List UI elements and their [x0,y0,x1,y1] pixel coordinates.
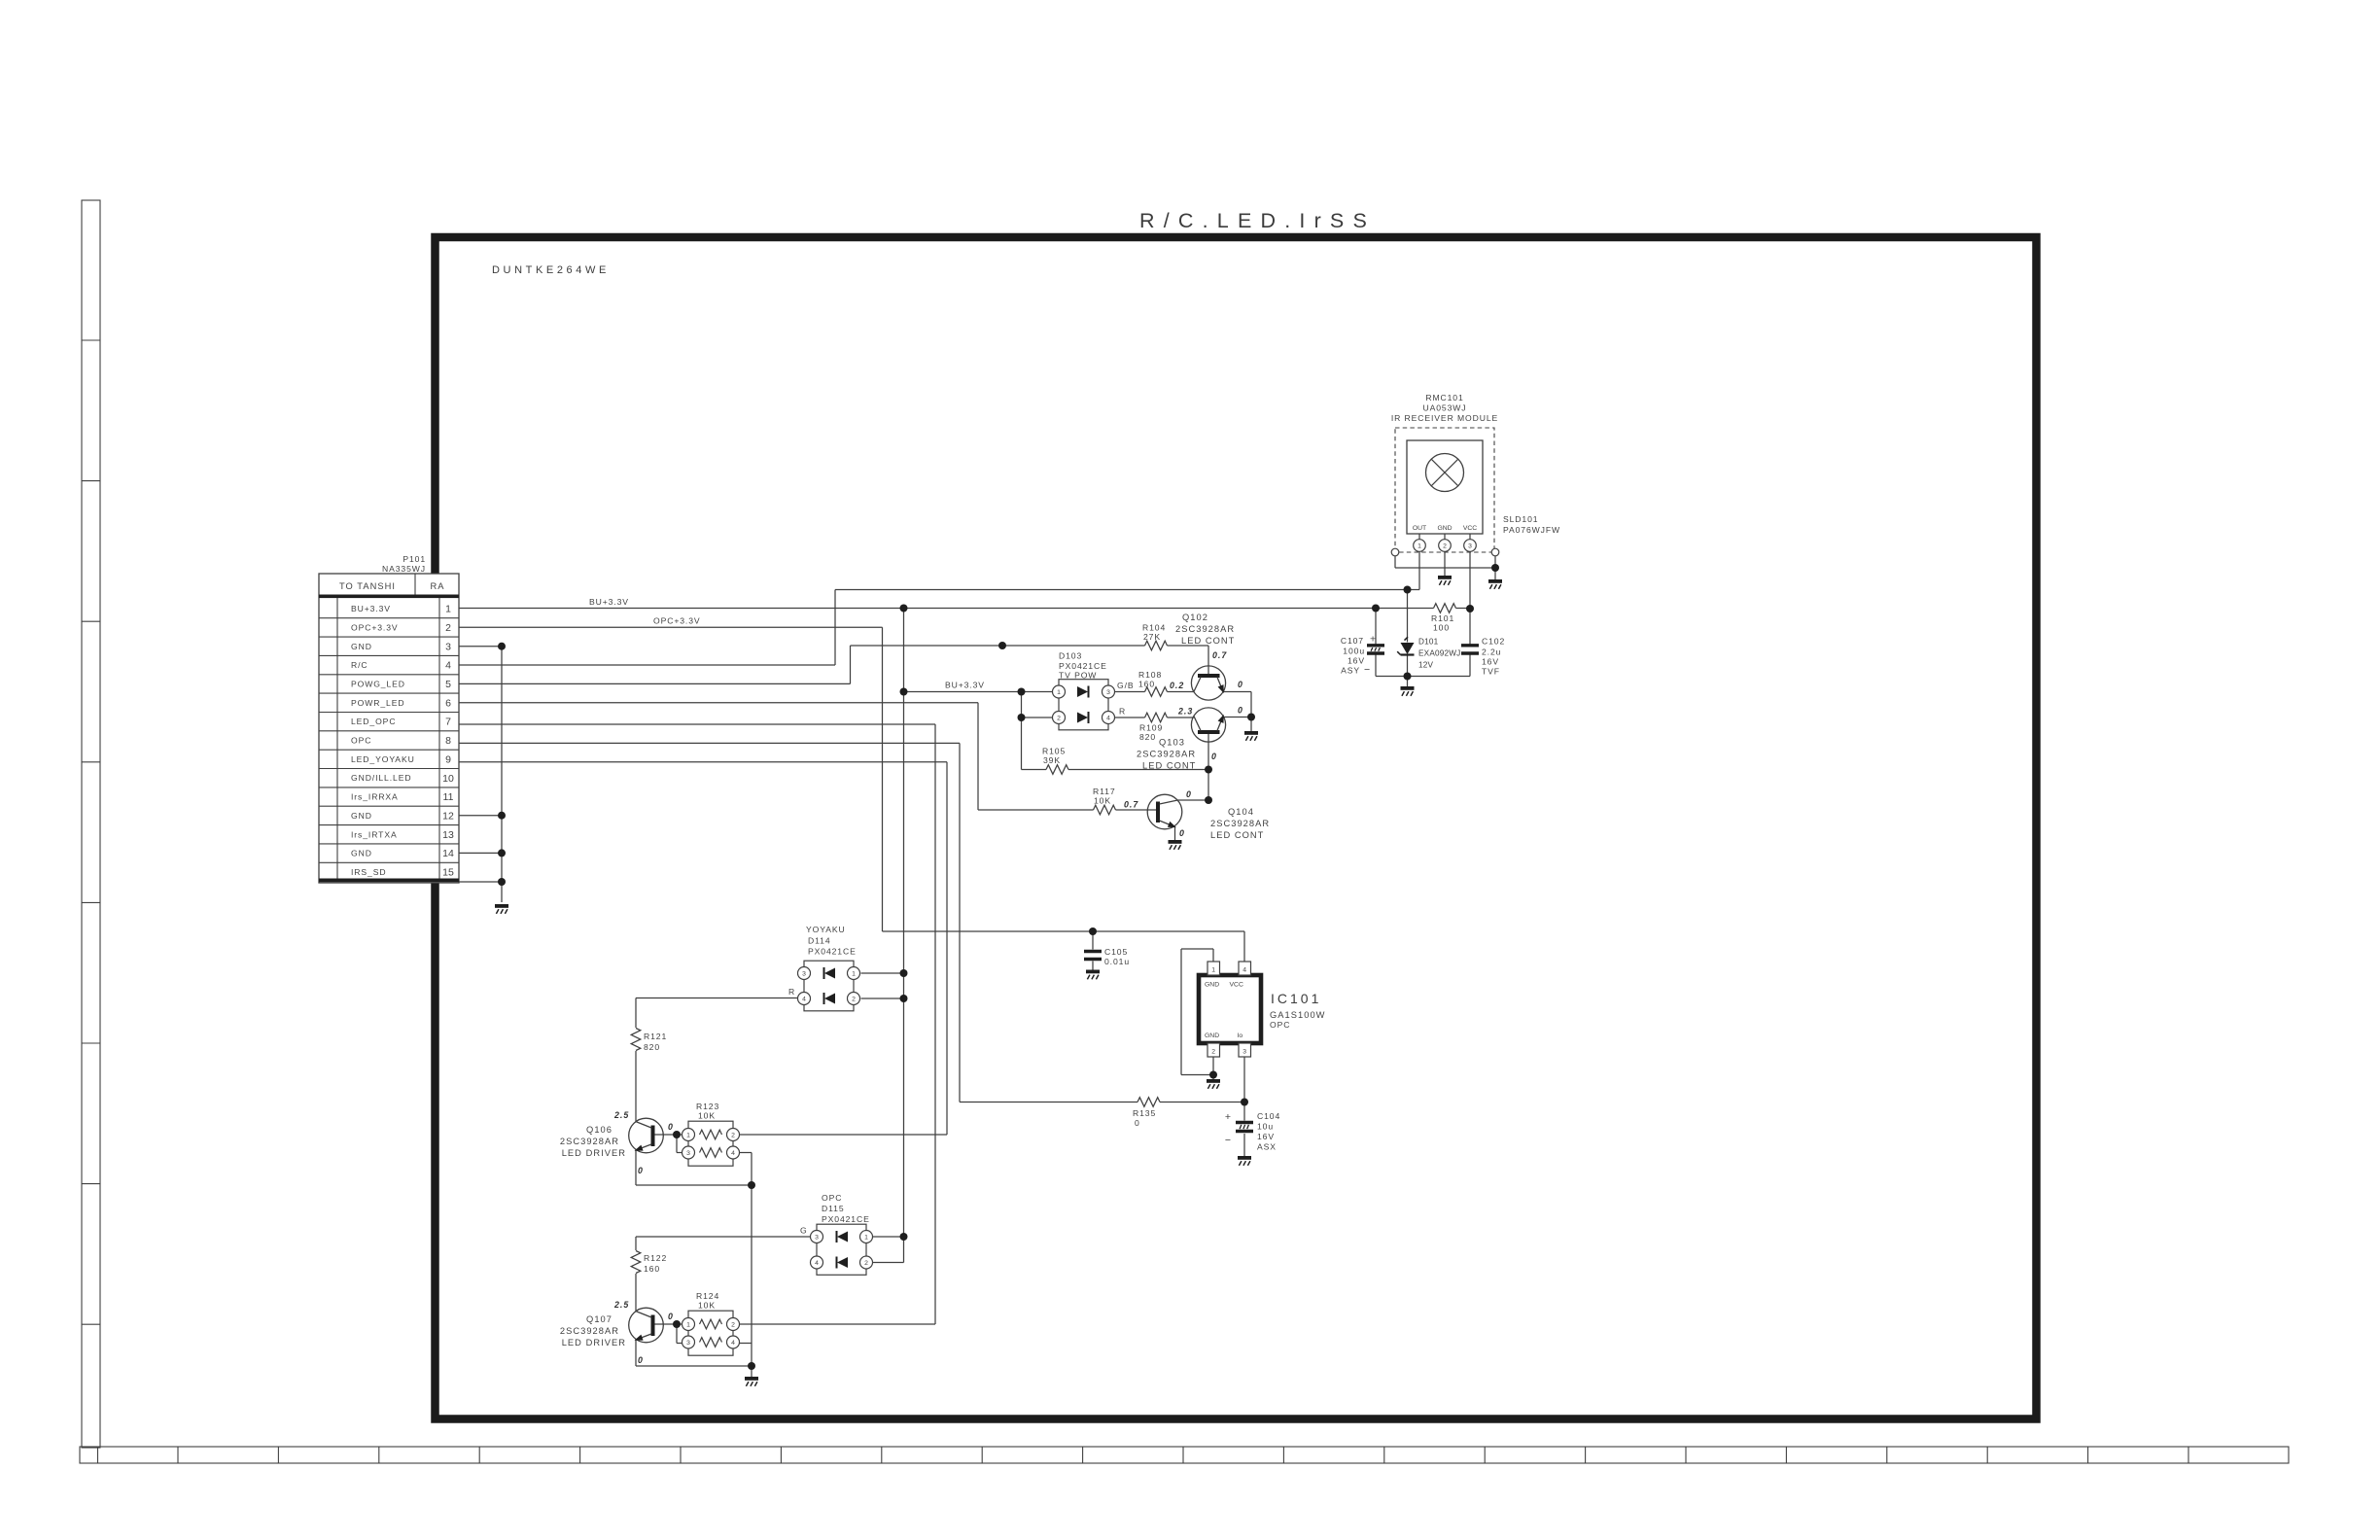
wire RMC101 pin2 stub [1444,534,1446,540]
svg-text:G: G [800,1226,808,1236]
wire R121 to Q106 collector [635,1051,637,1122]
wire POWG_LED from pin5 [459,682,851,684]
svg-text:LED DRIVER: LED DRIVER [562,1338,626,1347]
RMC101 pin 3 [1464,540,1477,552]
node junction [900,688,908,696]
resistor R105 [1046,765,1068,775]
svg-text:R122: R122 [644,1253,667,1263]
ground D101 rail [1401,686,1415,696]
wire RMC101 pin3 stub [1469,534,1471,540]
svg-text:0: 0 [1186,789,1192,799]
svg-text:4: 4 [731,1340,735,1347]
resistor pack R123 10K [682,1121,740,1166]
svg-text:TO TANSHI: TO TANSHI [339,581,396,591]
resistor R135 [1137,1098,1160,1107]
svg-text:3: 3 [802,970,806,977]
LED bridge D103 PX0421CE TV POW [1053,680,1115,730]
photo IC IC101 GA1S100W OPC [1199,962,1261,1057]
transistor Q106 2SC3928AR LED DRIVER [629,1118,664,1153]
node junction [1018,714,1026,721]
resistor R122 [631,1251,641,1274]
wire to R124 pin3 [677,1343,682,1345]
svg-text:2.2u: 2.2u [1482,647,1501,657]
svg-text:ASY: ASY [1341,666,1360,676]
svg-text:D115: D115 [822,1204,845,1213]
wire BU+3.3V net from pin1 to R101 [459,608,1434,610]
node junction [900,1233,908,1241]
svg-text:2: 2 [731,1132,735,1138]
wire OPC+3.3V horizontal to IC101 VCC [883,930,1245,932]
node junction [498,878,506,886]
svg-text:10: 10 [442,773,454,785]
svg-text:10K: 10K [1094,796,1111,806]
svg-text:OPC+3.3V: OPC+3.3V [653,616,701,626]
svg-text:GND/ILL.LED: GND/ILL.LED [351,773,411,783]
node junction [498,643,506,650]
wire Q106 emitter rail [636,1184,752,1186]
svg-text:LED_OPC: LED_OPC [351,717,396,726]
wire Q107 base to R124 pin1 [651,1323,682,1325]
wire to R122 top [635,1237,637,1250]
svg-text:IC101: IC101 [1271,991,1321,1006]
transistor Q102 2SC3928AR LED CONT [1191,666,1225,700]
svg-text:UA053WJ: UA053WJ [1423,403,1467,413]
svg-text:OPC: OPC [822,1193,842,1203]
svg-text:GA1S100W: GA1S100W [1270,1010,1326,1020]
svg-text:Irs_IRTXA: Irs_IRTXA [351,829,398,839]
wire IC101 VCC drop [1243,931,1245,962]
svg-text:10K: 10K [698,1111,716,1121]
node junction [1089,927,1097,935]
svg-text:0: 0 [638,1166,644,1175]
wire to R121 top [635,998,637,1029]
svg-text:ASX: ASX [1257,1142,1277,1152]
wire Q107 emitter rail [636,1365,752,1367]
svg-text:100u: 100u [1343,647,1365,656]
svg-text:0: 0 [1211,752,1217,761]
wire to R123 pin3 [677,1152,682,1154]
svg-text:GND: GND [351,849,372,858]
svg-text:TVF: TVF [1482,667,1500,677]
wire C105 top [1092,931,1094,950]
wire RMC101 VCC pin [1469,551,1471,609]
svg-text:3: 3 [815,1234,819,1241]
svg-text:R: R [788,987,795,997]
svg-text:POWG_LED: POWG_LED [351,680,405,689]
node junction [498,849,506,857]
svg-text:4: 4 [731,1150,735,1157]
svg-text:14: 14 [442,848,454,859]
wire IC101 pin2 to ground [1212,1057,1214,1079]
svg-text:EXA092WJ: EXA092WJ [1418,649,1460,658]
wire R/C vertical riser [834,590,836,666]
svg-text:VCC: VCC [1463,525,1477,532]
svg-text:5: 5 [445,679,451,690]
svg-text:1: 1 [686,1321,690,1328]
wire R123 pin4 / emitter ground bus [751,1153,752,1367]
ground RMC101 GND pin [1438,576,1452,585]
wire bottom rail C107-D101-C102 [1376,676,1470,678]
capacitor C105 0.01u [1084,952,1102,960]
node junction [1205,796,1212,804]
svg-text:0: 0 [1179,828,1185,838]
svg-text:Q106: Q106 [586,1125,612,1135]
shield terminal left [1391,548,1399,556]
svg-text:GND: GND [1437,525,1452,532]
ground Q107 emitter rail [745,1377,758,1386]
svg-text:R124: R124 [696,1291,719,1301]
wire rail to ground [1407,677,1409,688]
transistor Q107 2SC3928AR LED DRIVER [629,1308,664,1343]
svg-text:1: 1 [852,970,856,977]
node junction [1209,1071,1217,1079]
IR receiver module RMC101 UA053WJ [1395,428,1494,552]
wire LED_YOYAKU drop [946,762,948,1135]
svg-text:160: 160 [644,1264,660,1274]
wire D103 pin4 R to R109 [1115,717,1145,718]
wire R/C horizontal to RMC101 OUT [835,589,1419,591]
svg-text:BU+3.3V: BU+3.3V [351,604,391,613]
shield terminal right [1491,548,1499,556]
ground below P101 [495,904,508,914]
svg-text:R135: R135 [1133,1108,1156,1118]
wire R108 to Q102 collector [1168,691,1194,693]
svg-text:G/B: G/B [1117,681,1135,690]
wire G line R122 to D115 pin3 [636,1236,811,1238]
svg-text:Irs_IRRXA: Irs_IRRXA [351,792,399,802]
svg-text:12V: 12V [1418,661,1434,670]
node junction [1241,1099,1248,1106]
svg-text:2SC3928AR: 2SC3928AR [560,1326,619,1336]
connector P101 NA335WJ table [319,574,459,883]
svg-text:Io: Io [1238,1032,1243,1039]
svg-text:4: 4 [802,996,806,1002]
wire BU to C107 [1375,609,1377,646]
svg-text:0.01u: 0.01u [1104,957,1130,966]
wire D115 pin2 to BU bus [873,1262,904,1264]
wire Q102/Q103 emitter to ground [1250,692,1252,732]
ground C104 [1238,1156,1251,1166]
resistor R121 [631,1029,641,1051]
wire POWR_LED from pin6 [459,702,978,704]
svg-text:OPC+3.3V: OPC+3.3V [351,623,399,633]
svg-text:YOYAKU: YOYAKU [806,925,846,934]
capacitor C102 2.2u 16V TVF [1461,646,1479,653]
svg-text:3: 3 [1468,543,1472,550]
node junction [1404,586,1412,594]
svg-text:Q104: Q104 [1228,807,1254,817]
svg-text:RMC101: RMC101 [1425,393,1463,402]
svg-text:3: 3 [1106,689,1110,696]
svg-text:15: 15 [442,867,454,879]
wire OPC from pin8 [459,742,960,744]
wire shield right to ground [1494,556,1496,580]
svg-text:2.5: 2.5 [613,1300,629,1310]
wire P101 pin14 GND stub [459,852,502,854]
svg-text:NA335WJ: NA335WJ [382,564,426,574]
svg-text:2: 2 [864,1260,868,1267]
wire P101 pin12 GND stub [459,815,502,817]
svg-text:OPC: OPC [1270,1020,1290,1030]
wire Q107 emitter down [635,1340,637,1367]
wire LED_YOYAKU to R123 pin2 [740,1134,948,1136]
wire LED_YOYAKU from pin9 [459,761,947,763]
wire D103 pin3 G/B to R108 [1115,691,1145,693]
wire R117 to Q104 base [1116,809,1159,811]
svg-text:0: 0 [1238,680,1243,689]
node junction [673,1320,681,1328]
wire OPC drop [959,743,961,1102]
wire Io to C104 [1243,1102,1245,1121]
svg-text:−: − [1364,664,1370,676]
wire R105 to Q103 base node [1068,769,1208,771]
wire D103 pin2 branch vertical [1021,692,1023,770]
svg-text:R: R [1119,707,1126,717]
wire IC101 pin3 Io [1243,1057,1245,1102]
wire IC101 GND drop [1180,949,1182,1075]
svg-text:GND: GND [1205,1032,1219,1039]
wire P101 bottom GND stub [459,881,502,883]
svg-text:2: 2 [731,1321,735,1328]
svg-text:1: 1 [1057,689,1061,696]
wire R101 to VCC node [1456,608,1471,610]
svg-text:39K: 39K [1043,755,1061,765]
zener diode D101 EXA092WJ 12V [1397,637,1414,654]
svg-text:10u: 10u [1257,1122,1274,1132]
svg-text:2SC3928AR: 2SC3928AR [560,1137,619,1146]
svg-text:1: 1 [1417,543,1421,550]
wire base node down [676,1135,678,1153]
svg-text:0: 0 [638,1355,644,1365]
node junction [748,1181,755,1189]
wire Q102 base vertical [1207,646,1209,676]
resistor R101 [1434,604,1456,613]
wire Q102 emitter [1223,691,1251,693]
svg-text:0.7: 0.7 [1124,800,1138,810]
svg-text:GND: GND [1205,982,1219,989]
wire Q104 emitter to ground [1174,827,1176,842]
wire D114 pin4 R line [636,997,798,999]
svg-text:100: 100 [1433,623,1450,633]
wire POWG_LED riser [850,646,852,683]
svg-text:4: 4 [815,1260,819,1267]
wire BU+3.3V to D103 pin1 [904,691,1053,693]
svg-text:OUT: OUT [1413,525,1426,532]
wire POWR_LED to R117 [978,809,1094,811]
svg-text:C104: C104 [1257,1111,1280,1121]
wire GND bus vertical from P101 [501,647,503,902]
svg-text:2: 2 [1211,1049,1215,1056]
node junction [900,605,908,612]
wire OPC to R135 [960,1102,1137,1103]
wire Q104 collector [1177,799,1208,801]
svg-text:8: 8 [445,735,451,747]
svg-text:P101: P101 [402,554,426,564]
svg-text:2: 2 [852,996,856,1002]
LED bridge D114 PX0421CE YOYAKU [798,961,860,1011]
svg-text:2SC3928AR: 2SC3928AR [1137,750,1196,759]
svg-text:C107: C107 [1341,636,1364,646]
svg-text:GND: GND [351,642,372,651]
svg-text:16V: 16V [1257,1132,1275,1141]
svg-text:LED DRIVER: LED DRIVER [562,1148,626,1158]
svg-text:2: 2 [1057,715,1061,721]
svg-text:D101: D101 [1418,638,1439,647]
ground Q104 emitter [1169,840,1182,850]
svg-text:3: 3 [686,1340,690,1347]
svg-text:2: 2 [445,622,451,634]
svg-text:3: 3 [445,641,451,652]
svg-text:−: − [1225,1135,1231,1146]
wire R109 to Q103 collector [1168,717,1194,718]
wire R104 to Q102 base [1168,645,1209,647]
svg-text:LED_YOYAKU: LED_YOYAKU [351,754,415,764]
wire D101 cathode down [1407,655,1409,677]
svg-text:27K: 27K [1143,632,1161,642]
capacitor C107 100u 16V ASY [1367,646,1384,653]
svg-text:0.7: 0.7 [1212,650,1227,660]
svg-text:+: + [1225,1111,1231,1123]
wire VCC to C102 [1469,609,1471,645]
node junction [1372,605,1380,612]
svg-text:3: 3 [686,1150,690,1157]
schematic sheet border frame [436,237,2037,1419]
svg-text:9: 9 [445,753,451,765]
resistor R108 [1145,687,1168,697]
wire to R105 [1022,769,1047,771]
svg-text:Q103: Q103 [1159,738,1185,748]
ground C105 [1086,970,1100,980]
RMC101 pin 2 [1439,540,1452,552]
ground Q102/Q103 emitters [1244,731,1258,741]
wire D115 pin1 to BU bus [873,1236,904,1238]
wire R/C net from pin4 [459,664,835,666]
svg-text:C105: C105 [1104,947,1128,957]
svg-text:0: 0 [1238,706,1243,716]
sheet left ruler column [82,200,100,1448]
svg-text:BU+3.3V: BU+3.3V [945,681,985,690]
svg-text:1: 1 [864,1234,868,1241]
sheet bottom ruler row [80,1447,2289,1463]
svg-text:12: 12 [442,811,454,822]
svg-text:Q107: Q107 [586,1314,612,1324]
wire base node down [676,1324,678,1344]
resistor R104 [1145,641,1168,650]
wire shield left [1394,556,1396,569]
wire to pin2 node [1181,1074,1213,1076]
svg-text:820: 820 [644,1042,660,1052]
svg-text:160: 160 [1138,680,1155,689]
svg-text:RA: RA [430,581,444,591]
svg-text:R121: R121 [644,1032,667,1041]
svg-text:R109: R109 [1139,723,1163,733]
wire C107 down [1375,654,1377,677]
svg-text:VCC: VCC [1230,982,1243,989]
wire POWR_LED drop [977,703,979,810]
svg-text:PX0421CE: PX0421CE [808,947,857,957]
svg-text:R/C.LED.IrSS: R/C.LED.IrSS [1139,209,1376,232]
svg-text:PX0421CE: PX0421CE [822,1214,870,1224]
svg-text:2SC3928AR: 2SC3928AR [1175,624,1235,634]
wire D114 pin2 to BU bus [861,997,904,999]
svg-text:R101: R101 [1431,613,1454,623]
wire shield bus [1395,567,1495,569]
svg-text:LED CONT: LED CONT [1142,761,1196,771]
svg-text:POWR_LED: POWR_LED [351,698,404,708]
wire LED_OPC to R124 pin2 [740,1323,936,1325]
svg-text:1: 1 [445,604,451,615]
svg-text:4: 4 [445,660,451,672]
capacitor C104 10u 16V ASX [1236,1123,1253,1132]
wire RMC101 pin1 stub [1418,534,1420,540]
svg-text:DUNTKE264WE: DUNTKE264WE [492,264,610,276]
svg-text:1: 1 [686,1132,690,1138]
ground SLD101 shield [1488,579,1502,589]
svg-text:11: 11 [443,791,454,803]
svg-text:3: 3 [1242,1049,1246,1056]
node junction [1404,673,1412,681]
svg-text:2SC3928AR: 2SC3928AR [1210,819,1270,828]
svg-text:7: 7 [445,717,451,728]
wire OPC+3.3V vertical [882,627,884,931]
wire Q106 base to R123 pin1 [651,1134,682,1136]
wire BU+3.3V distribution vertical [903,609,905,1263]
resistor R109 [1145,713,1168,722]
svg-text:C102: C102 [1482,637,1505,647]
svg-text:TV POW: TV POW [1059,671,1097,681]
LED bridge D115 PX0421CE OPC [811,1224,873,1275]
svg-text:OPC: OPC [351,736,371,746]
wire R123 pin4 stub [740,1152,752,1154]
svg-text:0.2: 0.2 [1170,681,1184,690]
svg-text:R123: R123 [696,1102,719,1111]
svg-text:16V: 16V [1347,656,1365,666]
node junction [1466,605,1474,612]
svg-text:PX0421CE: PX0421CE [1059,661,1107,671]
wire C102 down [1469,654,1471,677]
node junction [1247,714,1255,721]
wire Q106 emitter down [635,1150,637,1186]
svg-text:R108: R108 [1138,670,1162,680]
node junction [673,1131,681,1138]
wire POWG_LED to R104 [851,645,1145,647]
resistor pack R124 10K [682,1311,740,1355]
wire RMC101 GND pin [1444,551,1446,576]
wire P101 pin3 GND stub [459,646,502,647]
wire LED_OPC from pin7 [459,723,935,725]
svg-text:D114: D114 [808,936,831,946]
wire IC101 pin1 up [1212,949,1214,962]
wire emitter rail to ground [751,1366,752,1377]
node junction [1491,564,1499,572]
svg-text:1: 1 [1211,967,1215,974]
wire branch to D103 pin2 [1022,717,1053,718]
wire C105 to ground [1092,962,1094,970]
svg-text:0: 0 [668,1312,674,1321]
svg-text:820: 820 [1139,732,1156,742]
wire R135 to IC101 Io [1160,1102,1244,1103]
svg-text:4: 4 [1106,715,1110,721]
svg-text:2.5: 2.5 [613,1110,629,1120]
wire R124 pin4 stub [740,1343,752,1345]
svg-text:0: 0 [1135,1118,1140,1128]
wire R/C node to D101 [1407,590,1409,643]
svg-text:LED CONT: LED CONT [1210,830,1264,840]
svg-text:IRS_SD: IRS_SD [351,867,386,877]
node junction [1018,688,1026,696]
svg-text:2: 2 [1443,543,1447,550]
svg-text:LED CONT: LED CONT [1181,636,1235,646]
